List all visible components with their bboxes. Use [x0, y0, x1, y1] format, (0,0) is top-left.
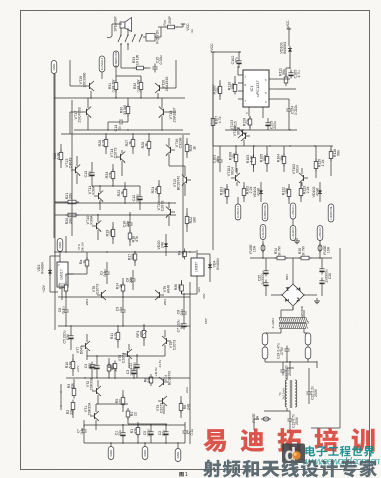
svg-text:1.2k: 1.2k — [321, 159, 325, 166]
capacitor C19 4.7n — [289, 416, 291, 420]
svg-text:22p: 22p — [129, 277, 133, 283]
wire bus y443 — [84, 442, 185, 444]
capacitor C2 22u — [165, 429, 167, 432]
transistor VT20 2SA1945 — [159, 85, 161, 91]
svg-text:56k: 56k — [337, 150, 341, 156]
watermark red 易迪拓培训 — [203, 428, 374, 452]
svg-text:2SK30A: 2SK30A — [88, 402, 92, 415]
capacitor C26 2x3300u — [321, 266, 323, 269]
svg-text:100u: 100u — [130, 368, 134, 376]
wire oval drops — [262, 241, 264, 259]
wire rail x213b — [212, 130, 214, 250]
resistor R111 56k — [285, 74, 287, 86]
svg-text:22u: 22u — [162, 430, 166, 436]
resistor R26 4.7k — [105, 137, 107, 150]
transistor VT9 A940 — [159, 292, 161, 298]
svg-text:100: 100 — [62, 283, 66, 289]
svg-text:BR1: BR1 — [285, 274, 289, 280]
svg-text:V901: V901 — [163, 298, 167, 305]
svg-text:150: 150 — [223, 188, 227, 194]
oval R-OVER-1 input — [235, 204, 241, 220]
resistor R27 1k — [132, 137, 134, 150]
relay K1 R-QLY2N — [146, 34, 155, 42]
svg-text:2SA1837: 2SA1837 — [173, 108, 177, 123]
resistor R19 10k — [112, 227, 114, 240]
svg-text:4.7k: 4.7k — [102, 139, 106, 146]
resistor R25 6.8k — [60, 150, 62, 163]
resistor R101 150 — [226, 187, 228, 200]
svg-text:4.7k: 4.7k — [218, 116, 222, 123]
resistor R2 20k — [72, 400, 74, 413]
transistor VT2 2SK30A — [96, 388, 98, 394]
transistor VT101 9014 — [235, 175, 237, 181]
resistor R18 47k — [129, 230, 131, 242]
capacitor C3 100u — [133, 368, 135, 371]
svg-text:47k: 47k — [135, 236, 139, 242]
wire bus y326 — [58, 325, 190, 327]
oval R-OUT row2 a — [260, 225, 266, 240]
svg-text:GND: GND — [176, 451, 180, 459]
svg-text:18k: 18k — [216, 87, 220, 93]
svg-text:1k: 1k — [129, 141, 133, 145]
svg-text:180*: 180* — [204, 317, 208, 324]
transistor VT19 2SC3380 — [89, 83, 91, 89]
resistor R106 15k — [235, 152, 237, 165]
ground sym bridge — [312, 294, 317, 296]
svg-text:47k: 47k — [246, 119, 250, 125]
svg-text:2SC3380: 2SC3380 — [83, 73, 87, 88]
transistor VT18 2SA1837 — [163, 109, 165, 115]
svg-text:GND: GND — [109, 449, 113, 457]
svg-text:+VCC: +VCC — [286, 20, 290, 30]
oval R-ZERO-VOL input — [262, 203, 268, 221]
wire rail x183 — [182, 135, 184, 258]
wire bus y424 — [128, 423, 167, 425]
resistor R30 33 3W — [127, 104, 129, 117]
wire mains rail y362 — [264, 359, 266, 363]
capacitor C13 10u — [91, 170, 93, 173]
transformer T2 S25Y840 — [279, 321, 306, 323]
svg-text:2SK30A: 2SK30A — [90, 377, 94, 390]
resistor R14 1k — [122, 282, 124, 294]
capacitor C4 47u — [96, 363, 98, 366]
capacitor C25 2x3300u — [265, 268, 267, 271]
svg-text:22p: 22p — [126, 221, 130, 227]
resistor R6 240 — [180, 401, 182, 414]
svg-text:60V: 60V — [202, 293, 206, 298]
svg-text:24V: 24V — [161, 241, 165, 248]
svg-text:K30A: K30A — [92, 185, 96, 194]
wire IC1 pin traces — [237, 66, 239, 75]
svg-text:0.1u: 0.1u — [80, 428, 84, 435]
resistor R108 47k — [249, 116, 251, 128]
resistor R24 24k — [158, 184, 160, 197]
resistor R100 18k — [219, 84, 221, 97]
wire speaker to relay contacts — [120, 28, 122, 34]
svg-text:33 3W: 33 3W — [123, 104, 127, 115]
resistor R34 3x7W — [274, 257, 288, 259]
svg-text:R-OVER-1: R-OVER-1 — [237, 205, 240, 218]
svg-text:GND: GND — [52, 63, 56, 71]
capacitor C23 2200p 250V — [282, 367, 284, 371]
caption 图1 — [179, 472, 183, 477]
wire bus y378 — [66, 377, 190, 379]
node GND oval g1 — [108, 447, 114, 460]
svg-text:R-ZERO-3: R-ZERO-3 — [262, 225, 265, 237]
resistor R23 1k — [124, 187, 126, 200]
wire speaker return hook — [112, 23, 122, 25]
svg-text:L-OVER-1: L-OVER-1 — [292, 205, 295, 217]
fuse FUSE2 16A — [318, 243, 322, 253]
svg-text:IN4004: IN4004 — [216, 258, 220, 269]
resistor R105 56k — [266, 154, 268, 167]
svg-text:2SA1945: 2SA1945 — [165, 77, 169, 92]
svg-text:3k 7W: 3k 7W — [302, 245, 306, 255]
capacitor C7 220u — [70, 333, 72, 336]
svg-text:1: 1 — [185, 472, 188, 478]
resistor R110 56k — [234, 82, 236, 95]
resistor R34 27k — [112, 169, 114, 182]
power VCC tap — [176, 26, 183, 28]
wire long rail A — [53, 98, 55, 238]
watermark logo tile — [282, 444, 305, 464]
svg-text:56k: 56k — [231, 83, 235, 89]
svg-text:C2073: C2073 — [114, 148, 118, 159]
svg-text:uPC1237: uPC1237 — [255, 80, 260, 96]
svg-text:47k: 47k — [134, 428, 138, 434]
diode VD103 IN4004 — [289, 46, 291, 54]
wire mains down — [289, 425, 291, 435]
svg-text:T2: T2 — [306, 321, 310, 325]
resistor R29 1k — [186, 142, 188, 155]
fuse FUSE3 3A — [261, 418, 271, 420]
capacitor C7b 220u 50V — [183, 321, 185, 324]
svg-text:10u: 10u — [88, 171, 92, 177]
oval row2 c — [317, 226, 323, 241]
wire rail x190 — [189, 282, 191, 326]
svg-text:-41.6V: -41.6V — [158, 360, 162, 369]
wire vcc distribution — [213, 51, 240, 53]
resistor R5 22 — [122, 395, 124, 408]
wire bus y404 — [96, 403, 128, 405]
wire bridge top — [292, 258, 294, 276]
resistor R31 0.33 7W — [115, 80, 117, 93]
resistor Rm 200 — [165, 26, 178, 28]
svg-text:+VCC: +VCC — [210, 43, 214, 53]
resistor R8b 24k — [150, 374, 152, 386]
resistor R15 100 — [65, 282, 67, 294]
transformer T1 2x2.5mH — [285, 380, 287, 407]
transistor VT15 BC33740 — [186, 177, 188, 183]
svg-text:10 1W: 10 1W — [136, 54, 140, 65]
svg-text:2.2k: 2.2k — [306, 186, 310, 193]
transistor VT10 K30A — [96, 223, 98, 229]
resistor R33 10 1W — [134, 67, 147, 69]
svg-text:C2073: C2073 — [96, 284, 100, 294]
capacitor C1 22u — [122, 430, 124, 433]
svg-text:BC33740: BC33740 — [177, 176, 181, 190]
svg-text:63V: 63V — [66, 333, 70, 340]
svg-text:GND: GND — [58, 241, 62, 249]
diode VD102 4148 — [319, 188, 321, 196]
wire bus y172 — [92, 185, 140, 187]
svg-text:150: 150 — [285, 188, 289, 194]
resistor R114 2.2k — [300, 186, 302, 199]
wire bus y130 — [74, 129, 183, 131]
transistor VT4 BC33740 — [163, 379, 165, 385]
wire bus y425 — [84, 424, 185, 426]
svg-text:-42V: -42V — [197, 287, 201, 293]
capacitor Cout 0.1u — [184, 428, 186, 432]
fuse FUSE1 16A — [261, 243, 265, 253]
transistor VT16 2SC3298 — [170, 147, 172, 153]
svg-text:250V: 250V — [288, 367, 292, 376]
capacitor C101 39p — [219, 157, 221, 161]
diode VD2 IN4004 — [49, 256, 51, 292]
capacitor C14 1u — [117, 121, 121, 123]
transistor VT12 C2073 — [170, 209, 172, 215]
transistor VT100 9015 — [245, 133, 247, 139]
capacitor C15 0.33u — [154, 64, 156, 68]
svg-text:180: 180 — [193, 217, 197, 223]
node GND oval g2 — [142, 447, 148, 460]
resistor R35 3x7W — [298, 257, 312, 259]
wire right vcc bus — [212, 84, 214, 130]
wire bus y356 — [87, 355, 165, 357]
wire bus y215 — [55, 214, 176, 216]
svg-text:GND: GND — [143, 449, 147, 457]
resistor R107 4.7k — [212, 116, 214, 129]
svg-text:180: 180 — [178, 284, 182, 290]
svg-text:2x3300u: 2x3300u — [261, 271, 265, 284]
svg-text:0.1u: 0.1u — [190, 429, 194, 436]
svg-text:0.1u: 0.1u — [62, 307, 66, 314]
capacitor C8 22p — [132, 276, 134, 280]
svg-text:4148: 4148 — [257, 188, 261, 196]
speaker LS — [120, 22, 125, 28]
svg-text:4148: 4148 — [316, 188, 320, 196]
wire top rail tile C — [61, 133, 190, 135]
svg-text:22u: 22u — [118, 430, 122, 436]
wire R31 R32 to bus — [116, 75, 141, 77]
plug prong oval b — [262, 347, 268, 359]
svg-text:3A: 3A — [256, 415, 260, 420]
svg-text:3k 7W: 3k 7W — [278, 245, 282, 255]
transistor VT14 C2073 — [120, 154, 122, 160]
svg-text:1k: 1k — [145, 143, 149, 147]
svg-text:C2073: C2073 — [161, 201, 165, 212]
svg-text:56k: 56k — [282, 69, 286, 75]
svg-text:0.1u: 0.1u — [103, 270, 107, 277]
wire tile D rails — [212, 130, 214, 146]
svg-text:D649: D649 — [80, 346, 84, 355]
svg-text:C26: C26 — [328, 273, 332, 279]
svg-text:20k 1W: 20k 1W — [81, 242, 85, 252]
capacitor C105 4.7u — [290, 70, 292, 73]
svg-text:0~220V: 0~220V — [271, 318, 275, 328]
svg-text:390: 390 — [131, 254, 135, 260]
transistor VT11 K30A — [98, 193, 100, 199]
transistor VT104 9015 — [242, 130, 244, 136]
resistor R3 20k — [73, 386, 75, 399]
svg-text:IC1: IC1 — [249, 85, 254, 91]
capacitor C9 1u — [122, 307, 124, 311]
svg-text:0.022u: 0.022u — [294, 105, 298, 116]
resistor R1 47k — [137, 425, 139, 438]
svg-text:1k: 1k — [83, 260, 87, 264]
resistor R9b 24k — [114, 361, 116, 372]
capacitor C4b 10u — [91, 362, 93, 365]
wire bus y297 — [58, 296, 190, 298]
wire tile C verticals — [69, 112, 71, 134]
svg-text:16A: 16A — [253, 245, 257, 252]
svg-text:LM337: LM337 — [195, 262, 199, 272]
resistor R20 20k — [65, 214, 79, 216]
wire drop to T1 — [289, 361, 291, 368]
power +VCC rail left — [212, 52, 214, 57]
transistor VT8 C2073 — [101, 292, 103, 298]
resistor R6b 1k — [184, 249, 186, 260]
wire top-right edge — [288, 27, 290, 29]
resistor R112 150 — [288, 187, 290, 200]
svg-text:C3298: C3298 — [179, 138, 183, 149]
transistor VT1 2SK30A — [94, 413, 96, 419]
svg-text:2mA: 2mA — [185, 387, 189, 393]
wire rail x72 — [71, 100, 73, 236]
diode VD20 24V zener — [165, 241, 167, 249]
transistor VT6 C2073 — [127, 351, 129, 357]
resistor R115 1.2k — [315, 159, 317, 172]
svg-text:R-OVER-1: R-OVER-1 — [100, 57, 104, 70]
IC U1 uPC1237 — [243, 70, 269, 107]
svg-text:250V: 250V — [314, 388, 318, 397]
svg-text:C2073: C2073 — [160, 403, 164, 413]
capacitor C12 100u — [139, 194, 141, 197]
resistor R32 0.33 7W — [140, 80, 142, 93]
resistor R17 390 — [134, 251, 136, 263]
svg-text:27k: 27k — [109, 172, 113, 178]
resistor R116 56k — [330, 149, 332, 162]
svg-text:275V: 275V — [280, 346, 284, 355]
svg-text:200P: 200P — [168, 16, 172, 23]
svg-text:L-OVER-3: L-OVER-3 — [319, 227, 322, 239]
capacitor C104 0.022u — [288, 106, 290, 110]
svg-text:R-ZERO3-VOL: R-ZERO3-VOL — [116, 51, 118, 67]
resistor R36 180 — [181, 282, 183, 294]
svg-text:250V: 250V — [295, 416, 299, 425]
svg-text:LM317: LM317 — [60, 269, 64, 279]
svg-text:1k: 1k — [121, 191, 125, 195]
svg-text:200: 200 — [140, 331, 144, 337]
capacitor C22 2200p 250V — [308, 389, 310, 393]
wire bus y146 — [213, 145, 333, 147]
capacitor C6 0.1u — [65, 307, 67, 311]
svg-text:1u: 1u — [119, 307, 123, 311]
transistor VT3 C2073 — [162, 398, 164, 404]
node GND oval — [51, 61, 57, 74]
plug prong oval a — [262, 333, 268, 345]
svg-text:24k: 24k — [111, 363, 115, 369]
relay output oval R-OVER-1 — [99, 56, 105, 72]
svg-text:0.33 7W: 0.33 7W — [112, 79, 116, 93]
capacitor C5c 100u — [150, 429, 152, 432]
resistor R22 180 — [186, 214, 188, 227]
transistor VT5 C2073 — [166, 338, 168, 344]
bridge rectifier BR1 S25VB40 — [282, 284, 304, 306]
svg-text:A940: A940 — [167, 285, 171, 293]
svg-text:0.1u: 0.1u — [180, 309, 184, 316]
svg-text:2SC4793: 2SC4793 — [78, 107, 82, 122]
wire gnd rail down — [53, 74, 55, 99]
resistor R103 1.2k — [253, 155, 255, 168]
plug prong oval c — [305, 333, 311, 345]
wire bus y252 — [54, 251, 196, 253]
node GND oval lower-left — [57, 239, 63, 252]
svg-text:L-ZERO-VOL: L-ZERO-VOL — [331, 205, 333, 220]
svg-text:100u: 100u — [136, 194, 140, 202]
svg-text:10u: 10u — [88, 363, 92, 369]
capacitor Cin 0.1u — [83, 427, 85, 431]
transistor VT7 D649 — [85, 343, 87, 349]
watermark outline 射频和天线设计专家 — [203, 459, 377, 477]
oval L-OVER-1 input — [290, 203, 296, 219]
svg-text:4.7u: 4.7u — [297, 70, 301, 77]
svg-text:1.2k: 1.2k — [250, 155, 254, 162]
capacitor C103 220u — [267, 120, 269, 123]
svg-text:R-ZERO-VOL: R-ZERO-VOL — [265, 204, 267, 219]
svg-text:47u: 47u — [235, 57, 239, 63]
svg-text:10k: 10k — [109, 230, 113, 236]
svg-text:IN4004: IN4004 — [283, 42, 287, 54]
ground sym small — [296, 238, 298, 241]
oval L-ZERO-VOL input — [328, 204, 334, 222]
capacitor C102 47u — [238, 58, 240, 61]
svg-text:15k: 15k — [232, 153, 236, 159]
svg-text:Rm: Rm — [163, 20, 167, 25]
svg-text:+42V: +42V — [42, 284, 46, 292]
svg-text:50V: 50V — [180, 322, 184, 329]
potentiometer RP1 — [143, 328, 145, 341]
svg-text:6.8k: 6.8k — [69, 361, 73, 368]
svg-text:K30A: K30A — [90, 215, 94, 224]
resistor R10 6.8k — [72, 359, 74, 372]
svg-text:220u: 220u — [273, 121, 277, 129]
transistor VT13 C4049 — [75, 167, 77, 173]
svg-text:+40.8V: +40.8V — [154, 367, 158, 376]
svg-text:16A: 16A — [327, 246, 331, 253]
svg-text:2x2.5mH: 2x2.5mH — [282, 388, 286, 399]
svg-text:2.2k: 2.2k — [249, 186, 253, 193]
wire bus y203 — [55, 202, 176, 204]
svg-text:1k: 1k — [193, 146, 197, 150]
svg-text:4.7k: 4.7k — [114, 332, 118, 339]
svg-text:39p: 39p — [216, 156, 220, 162]
wire y166 r — [169, 165, 185, 167]
resistor R102 2.2k — [243, 186, 245, 199]
wire rail y258 — [250, 257, 332, 259]
svg-text:C2073: C2073 — [122, 353, 126, 363]
oval row2 b — [290, 226, 296, 241]
wire bus tile C to E — [65, 236, 67, 252]
resistor R11 4.7k — [117, 330, 119, 343]
svg-text:0.33 7W: 0.33 7W — [137, 79, 141, 93]
svg-text:56k: 56k — [263, 155, 267, 161]
resistor R104 15k — [283, 154, 285, 167]
wire mains bottom rail — [264, 410, 290, 412]
svg-text:3A: 3A — [190, 29, 194, 33]
svg-text:C2073: C2073 — [173, 340, 177, 350]
svg-text:24k: 24k — [155, 187, 159, 193]
